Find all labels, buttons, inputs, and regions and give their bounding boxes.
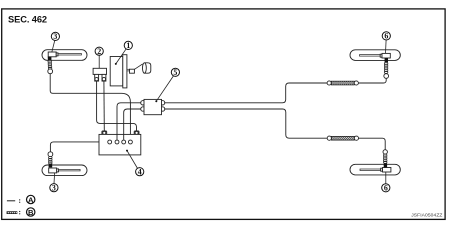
joint FL (56, 53, 58, 56)
wheel cylinder body FL (42, 50, 87, 61)
label 2 (95, 47, 103, 68)
hose block FR (49, 164, 53, 168)
block body (93, 68, 106, 74)
rear-bottom hose right circle (354, 136, 358, 140)
legend colon B (19, 211, 20, 212)
svg-text:2: 2 (97, 47, 101, 56)
joint RT (380, 54, 382, 57)
svg-text:B: B (28, 208, 34, 217)
rear-bottom hose crosshatch (331, 136, 354, 140)
caliper rect FR (49, 168, 57, 173)
rear-top hose left circle (327, 81, 331, 85)
connector circle RB (383, 150, 387, 154)
rear-top hose right circle (354, 81, 358, 85)
connector circle RT (384, 74, 389, 79)
left foot (95, 74, 99, 81)
actuator body (99, 134, 141, 155)
tube MC left port to ABS right tab (97, 81, 137, 132)
needle FL (58, 54, 81, 56)
left mount tab (102, 131, 107, 134)
svg-text:6: 6 (384, 32, 388, 41)
coil FR (49, 157, 53, 164)
hose block RB (384, 163, 387, 167)
rod (134, 64, 142, 70)
legend circle B (27, 208, 35, 216)
svg-text:A: A (28, 195, 34, 204)
label 1 (115, 41, 133, 65)
label 3 top (51, 32, 59, 52)
joint FR (57, 169, 59, 172)
coil RB (383, 154, 387, 163)
rear-bottom hose left circle (327, 136, 331, 140)
flange (123, 55, 127, 88)
label 6 bottom (382, 172, 390, 193)
port circles (108, 140, 133, 144)
tube MC right port to ABS left tab (103, 81, 105, 132)
tube FR to ABS port1 (50, 142, 107, 152)
coil RT (384, 62, 388, 73)
label 4 (126, 150, 144, 177)
wheel cylinder body RT (350, 50, 400, 61)
stem (127, 69, 130, 71)
tube hose to RR-top wheel (358, 78, 386, 83)
legend bar B (7, 211, 18, 214)
legend line A (7, 200, 15, 202)
connector circle FR (48, 152, 53, 157)
joint RB (381, 168, 383, 171)
caliper rect FL (48, 52, 56, 57)
svg-text:4: 4 (138, 168, 142, 177)
wheel cylinder body RB (350, 164, 400, 175)
svg-text:1: 1 (126, 41, 130, 50)
connector circle FL (48, 69, 53, 74)
label 5 (155, 68, 179, 102)
svg-text:JSFIA0504ZZ: JSFIA0504ZZ (411, 212, 442, 218)
svg-text:SEC. 462: SEC. 462 (8, 15, 47, 25)
rear-top hose crosshatch (331, 81, 354, 85)
caliper rect RB (383, 168, 391, 173)
junction body (144, 99, 162, 114)
right mount tab (134, 131, 139, 134)
booster body U1 (110, 57, 123, 86)
caliper rect RT (382, 53, 390, 58)
tube FL to ABS port4 (50, 74, 130, 140)
svg-text:3: 3 (52, 184, 56, 193)
tube junction to rear-bottom hose (164, 109, 327, 138)
lugs (141, 101, 165, 112)
needle RB (360, 169, 381, 171)
label 6 top (382, 32, 390, 54)
right foot (102, 74, 106, 81)
hose block RT (385, 58, 388, 62)
svg-text:5: 5 (173, 68, 177, 77)
needle FR (59, 169, 81, 171)
coil FL (48, 60, 52, 69)
wheel cylinder body FR (42, 165, 87, 176)
tube junction to rear-top hose (164, 83, 327, 103)
needle RT (360, 55, 381, 57)
svg-text:3: 3 (53, 32, 57, 41)
hose block FL (48, 57, 52, 61)
tube hose to RR-bottom wheel (359, 138, 386, 150)
tube junction bottom-left lug to ABS port3 (124, 109, 142, 140)
label 3 bottom (50, 173, 58, 193)
clevis rect (130, 69, 135, 73)
legend colon A (19, 199, 20, 200)
svg-text:6: 6 (384, 184, 388, 193)
legend circle A (27, 195, 35, 203)
knob (143, 63, 151, 73)
tube junction top-left lug to ABS port2 (117, 103, 141, 140)
